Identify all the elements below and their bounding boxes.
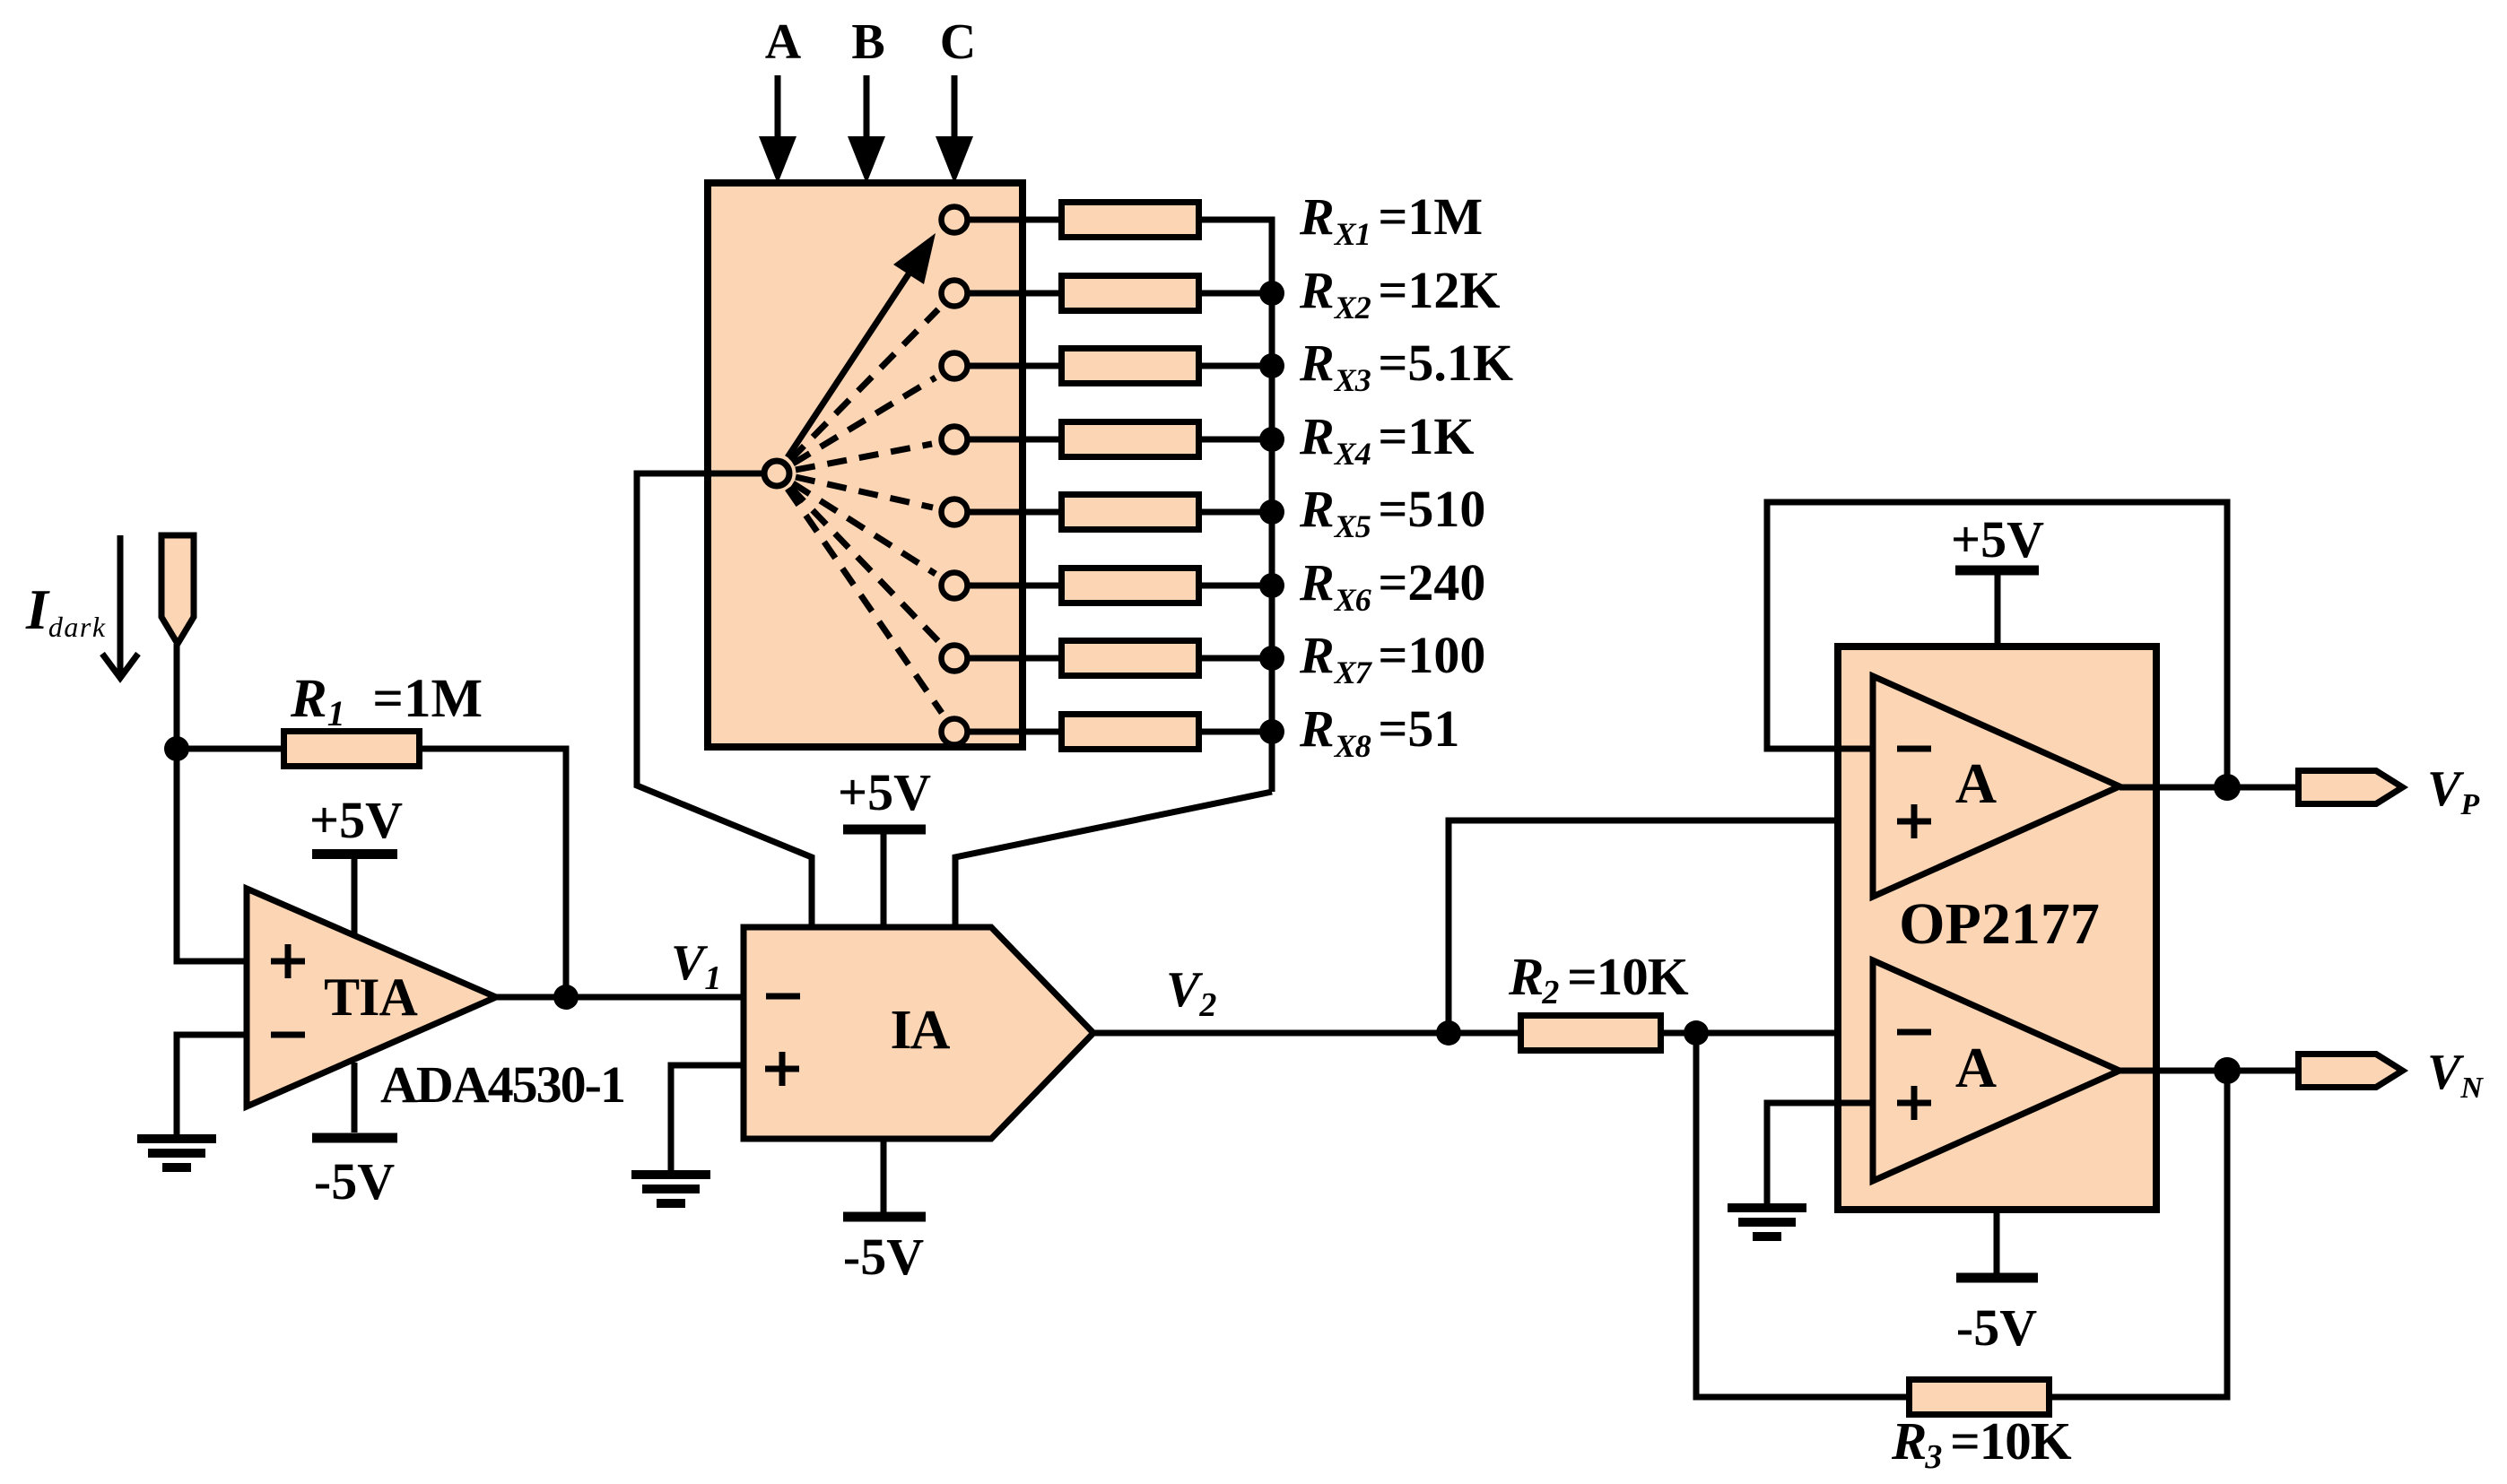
switch wiper arrow (position 1) <box>788 233 936 457</box>
switch contact 7 <box>942 646 968 672</box>
resistor bus vertical wire <box>1269 217 1275 793</box>
wire A2 output to VN <box>2120 1068 2298 1074</box>
svg-text:RX1 =1M: RX1 =1M <box>1299 187 1483 252</box>
switch dashed position line 7 <box>790 487 939 642</box>
wire V1: TIA output to IA - input <box>496 994 744 1001</box>
wire A1 output to VP <box>2120 785 2298 791</box>
svg-text:A: A <box>1955 1036 1997 1099</box>
switch dashed position line 4 <box>796 444 932 470</box>
junction node RX6/bus <box>1259 573 1284 598</box>
svg-text:R2 =10K: R2 =10K <box>1508 947 1689 1011</box>
svg-text:RX5 =510: RX5 =510 <box>1299 480 1485 544</box>
svg-text:VP: VP <box>2427 761 2479 821</box>
TIA - input symbol <box>271 1032 305 1038</box>
TIA output node <box>553 985 579 1010</box>
resistor RX4 <box>1062 422 1199 457</box>
wire resistor RX4 to bus <box>1198 437 1272 443</box>
wire resistor RX8 to bus <box>1198 729 1272 735</box>
junction node RX8/bus <box>1259 719 1284 744</box>
op-amp A1 (top) <box>1873 676 2120 897</box>
resistor RX5 <box>1062 495 1199 530</box>
wiper wire and funnel to IA left gain pin <box>637 473 812 927</box>
svg-text:C: C <box>940 14 976 70</box>
IA +5V supply <box>838 763 931 927</box>
svg-text:+5V: +5V <box>309 791 403 849</box>
TIA + input symbol <box>271 944 305 978</box>
switch dashed position line 2 <box>790 309 938 460</box>
junction node RX2/bus <box>1259 281 1284 306</box>
wire resistor RX3 to bus <box>1198 363 1272 369</box>
svg-text:RX4 =1K: RX4 =1K <box>1299 407 1474 472</box>
bus funnel wire to IA right gain pin <box>955 792 1272 927</box>
ground at A2 + input <box>1728 1208 1806 1237</box>
wire node to R1 <box>177 746 284 752</box>
switch contact 8 <box>942 719 968 745</box>
ground at IA + input <box>631 1175 710 1203</box>
wire resistor RX6 to bus <box>1198 583 1272 589</box>
wire contact 6 to resistor RX6 <box>967 583 1062 589</box>
svg-text:V2: V2 <box>1166 962 1216 1024</box>
resistor R2 <box>1521 1016 1661 1051</box>
switch contact 5 <box>942 499 968 525</box>
svg-text:R3 =10K: R3 =10K <box>1891 1411 2072 1476</box>
svg-text:OP2177: OP2177 <box>1899 891 2100 957</box>
svg-text:-5V: -5V <box>314 1152 395 1211</box>
TIA -5V supply <box>312 1063 397 1211</box>
wire contact 4 to resistor RX4 <box>967 437 1062 443</box>
A2 - input symbol <box>1897 1029 1931 1036</box>
multiplexer switch box S1 <box>708 183 1023 747</box>
input C arrow <box>936 75 973 184</box>
svg-text:ADA4530-1: ADA4530-1 <box>380 1055 624 1114</box>
switch contact 6 <box>942 573 968 599</box>
IA - input symbol <box>766 994 800 1000</box>
svg-text:RX8 =51: RX8 =51 <box>1299 699 1459 764</box>
resistor R1 <box>284 732 420 767</box>
resistor RX7 <box>1062 641 1199 676</box>
A1 - input symbol <box>1897 746 1931 752</box>
wire contact 7 to resistor RX7 <box>967 655 1062 662</box>
input A arrow <box>759 75 796 184</box>
wire contact 3 to resistor RX3 <box>967 363 1062 369</box>
switch contact 4 <box>942 427 968 453</box>
wire node down to TIA + input <box>177 749 247 961</box>
op-amp A2 (bottom) <box>1873 960 2120 1181</box>
svg-text:V1: V1 <box>671 935 721 997</box>
TIA +5V supply <box>309 791 403 936</box>
IA -5V supply <box>843 1139 926 1286</box>
OP2177 -5V supply <box>1956 1210 2038 1357</box>
junction node RX3/bus <box>1259 353 1284 378</box>
svg-text:A: A <box>1955 751 1997 815</box>
A2 + input symbol <box>1897 1086 1931 1120</box>
dual op-amp OP2177 box U2 <box>1838 647 2156 1210</box>
wire V2: IA output <box>1093 1030 1518 1037</box>
svg-text:-5V: -5V <box>1956 1298 2037 1357</box>
IA + input wire to ground <box>671 1065 744 1170</box>
A1 feedback wire (output to - input) <box>1767 502 2227 787</box>
wire resistor RX2 to bus <box>1198 291 1272 297</box>
output connector VN <box>2299 1054 2403 1088</box>
svg-text:IA: IA <box>891 1000 951 1061</box>
svg-text:RX6 =240: RX6 =240 <box>1299 553 1485 618</box>
switch dashed position line 5 <box>796 477 933 508</box>
OP2177 +5V supply <box>1951 510 2044 647</box>
IA + input symbol <box>765 1052 799 1086</box>
wire contact 2 to resistor RX2 <box>967 291 1062 297</box>
wire contact 5 to resistor RX5 <box>967 509 1062 516</box>
A1 + input symbol <box>1897 804 1931 838</box>
svg-text:+5V: +5V <box>1951 510 2044 568</box>
input probe connector J1 <box>161 535 194 644</box>
junction node before R2 <box>1436 1020 1461 1046</box>
resistor R3 <box>1910 1380 2050 1415</box>
wire contact 1 to resistor RX1 <box>967 217 1062 223</box>
junction node RX5/bus <box>1259 499 1284 525</box>
switch wiper pole <box>764 461 789 486</box>
svg-text:Idark: Idark <box>25 577 107 643</box>
instrumentation amplifier IA <box>744 927 1093 1139</box>
svg-text:TIA: TIA <box>324 968 417 1027</box>
wire resistor RX1 to bus <box>1198 217 1272 223</box>
TIA - input wire to ground <box>177 1035 247 1134</box>
resistor RX8 <box>1062 715 1199 750</box>
node at TIA + input column <box>164 736 189 761</box>
wire up to OP2177 A1 + input <box>1449 820 1873 1033</box>
junction node RX4/bus <box>1259 427 1284 452</box>
resistor RX3 <box>1062 349 1199 384</box>
svg-text:RX2 =12K: RX2 =12K <box>1299 261 1500 325</box>
output connector VP <box>2299 771 2403 804</box>
switch contact 3 <box>942 353 968 379</box>
wire resistor RX5 to bus <box>1198 509 1272 516</box>
switch contact 1 <box>942 207 968 233</box>
wire resistor RX7 to bus <box>1198 655 1272 662</box>
junction node after R2 <box>1684 1020 1709 1046</box>
node at VN output <box>2214 1057 2241 1084</box>
svg-text:RX7 =100: RX7 =100 <box>1299 626 1485 690</box>
wire connector to node <box>174 644 180 749</box>
A2 + input wire to ground <box>1767 1103 1873 1203</box>
wire R1 to output column <box>419 749 566 997</box>
node at VP output <box>2214 774 2241 801</box>
input B arrow <box>848 75 885 184</box>
switch contact 2 <box>942 281 968 307</box>
switch dashed position line 6 <box>793 483 936 574</box>
switch dashed position line 8 <box>788 489 942 713</box>
resistor RX6 <box>1062 568 1199 603</box>
ground at TIA - input <box>137 1139 216 1167</box>
svg-text:+5V: +5V <box>838 763 931 821</box>
svg-text:B: B <box>851 14 884 70</box>
svg-text:A: A <box>765 14 802 70</box>
wire node down to R3 <box>1696 1033 1913 1397</box>
wire R2 to OP2177 A2 - input <box>1664 1030 1873 1037</box>
svg-text:VN: VN <box>2427 1045 2484 1105</box>
wire contact 8 to resistor RX8 <box>967 729 1062 735</box>
wire VN node down to R3 <box>2049 1071 2227 1397</box>
svg-text:RX3 =5.1K: RX3 =5.1K <box>1299 334 1513 398</box>
svg-text:-5V: -5V <box>843 1228 924 1286</box>
resistor RX1 <box>1062 203 1199 238</box>
switch dashed position line 3 <box>793 378 936 464</box>
svg-text:R1 =1M: R1 =1M <box>290 669 483 733</box>
resistor RX2 <box>1062 276 1199 311</box>
op-amp TIA (ADA4530-1) <box>247 889 496 1106</box>
Idark current arrow <box>102 535 138 678</box>
junction node RX7/bus <box>1259 646 1284 671</box>
